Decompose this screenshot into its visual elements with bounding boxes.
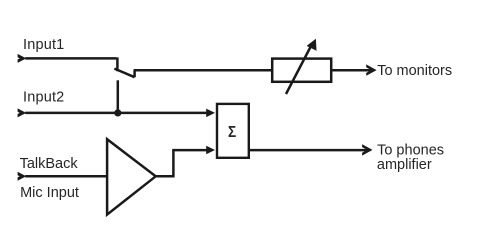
svg-text:Σ: Σ — [228, 124, 236, 141]
svg-text:Input2: Input2 — [23, 90, 64, 106]
svg-text:Mic Input: Mic Input — [20, 185, 79, 201]
svg-text:To monitors: To monitors — [377, 63, 452, 79]
svg-text:Input1: Input1 — [23, 37, 64, 53]
svg-text:amplifier: amplifier — [377, 157, 432, 173]
svg-text:TalkBack: TalkBack — [20, 156, 79, 172]
